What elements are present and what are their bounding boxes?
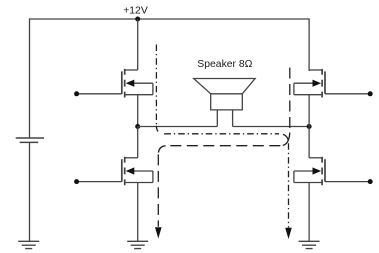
net +12V label	[123, 6, 148, 17]
current path 1 arrowhead	[285, 228, 292, 239]
wire left rail lower	[29, 142, 31, 241]
node mid-right junction dot	[307, 124, 312, 129]
wire Q3 source to ground	[137, 183, 139, 242]
wire mid-left node to Q3 drain	[137, 127, 139, 158]
transistor Q4 (bottom-right N-MOSFET, mirrored)	[294, 157, 370, 186]
speaker LS1	[194, 79, 255, 127]
speaker label	[197, 59, 252, 70]
wire Q2 source to mid-right node	[308, 95, 310, 127]
wire mid rail right segment	[233, 126, 310, 128]
wire mid rail left segment	[138, 126, 218, 128]
wire mid-right node to Q4 drain	[308, 127, 310, 158]
transistor Q2 (top-right N-MOSFET, mirrored)	[294, 69, 370, 98]
node mid-left junction dot	[135, 124, 140, 129]
battery V1	[16, 138, 44, 142]
ground (Q4 source)	[299, 241, 320, 248]
ground (battery)	[18, 241, 39, 248]
ground (Q3 source)	[127, 241, 148, 248]
current path 2 (dashed, Q2 to Q3)	[158, 68, 289, 227]
node Q3 gate terminal dot	[74, 179, 79, 184]
wire +12V stem to Q1 drain	[137, 19, 139, 70]
wire Q2 drain from top rail	[308, 18, 310, 71]
wire top rail	[30, 18, 310, 20]
node Q4 gate terminal dot	[368, 179, 373, 184]
transistor Q1 (top-left N-MOSFET)	[77, 69, 153, 98]
current path 1 (dash-dot, Q1 to Q4)	[156, 45, 288, 228]
wire Q1 source to mid-left node	[137, 95, 139, 127]
svg-text:Speaker 8Ω: Speaker 8Ω	[197, 59, 252, 70]
current path 2 arrowhead	[155, 227, 162, 238]
wire left rail upper	[29, 18, 31, 138]
wire Q4 source to ground	[308, 183, 310, 242]
transistor Q3 (bottom-left N-MOSFET)	[77, 157, 153, 186]
node Q2 gate terminal dot	[368, 91, 373, 96]
node Q1 gate terminal dot	[74, 91, 79, 96]
node +12V junction dot	[135, 17, 140, 22]
svg-text:+12V: +12V	[123, 6, 148, 17]
